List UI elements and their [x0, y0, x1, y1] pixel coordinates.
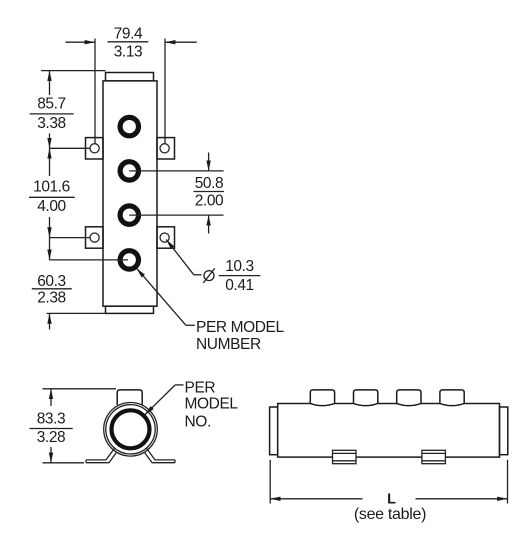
end view bracket feet [86, 448, 175, 463]
svg-text:3.38: 3.38 [37, 115, 66, 132]
svg-text:NUMBER: NUMBER [196, 336, 261, 353]
svg-text:0.41: 0.41 [225, 277, 254, 294]
end view body second circle [106, 405, 155, 454]
front view body [103, 81, 157, 306]
mounting tab upper-left [86, 138, 104, 159]
port P2 [120, 162, 138, 180]
mounting hole lower-left [90, 233, 99, 242]
svg-text:10.3: 10.3 [225, 258, 254, 275]
leader PER MODEL NUMBER [137, 268, 285, 353]
svg-text:4.00: 4.00 [37, 198, 66, 215]
front view bottom boss [106, 306, 154, 313]
svg-text:3.28: 3.28 [37, 429, 66, 446]
dimension L (see table) [270, 460, 507, 523]
dimension 83.3/3.28 [30, 389, 117, 463]
svg-text:50.8: 50.8 [195, 175, 224, 192]
svg-text:L: L [387, 492, 396, 508]
mounting tab lower-right [157, 227, 175, 248]
mounting hole lower-right [160, 233, 169, 242]
side view port S2 [354, 390, 378, 406]
front view top boss [106, 73, 154, 81]
side view port S1 [310, 390, 334, 406]
svg-text:3.13: 3.13 [114, 44, 143, 61]
end view port stub [117, 390, 142, 405]
side view left cap [270, 407, 278, 455]
mounting hole upper-right [160, 144, 169, 153]
end view body outer circle [104, 403, 158, 457]
leader PER MODEL NO. [145, 380, 239, 431]
svg-text:2.00: 2.00 [195, 192, 224, 209]
port P4 [120, 251, 138, 269]
svg-text:MODEL: MODEL [185, 396, 239, 413]
mounting tab upper-right [157, 138, 175, 159]
mounting tab lower-left [86, 227, 104, 248]
svg-text:101.6: 101.6 [33, 179, 70, 196]
side view right cap [500, 407, 508, 455]
svg-text:83.3: 83.3 [37, 410, 66, 427]
dimension 50.8/2.00 [129, 153, 224, 234]
side view mounting tab T1 [333, 450, 357, 463]
port P3 [120, 206, 138, 224]
side view port S4 [440, 390, 464, 406]
svg-text:60.3: 60.3 [37, 273, 66, 290]
mounting hole upper-left [90, 144, 99, 153]
dimension 101.6/4.00 [29, 148, 90, 237]
dimension 85.7/3.38 [30, 71, 106, 149]
svg-text:79.4: 79.4 [114, 26, 143, 43]
side view port S3 [397, 390, 421, 406]
svg-text:NO.: NO. [185, 413, 211, 430]
svg-text:2.38: 2.38 [37, 290, 66, 307]
dimension 60.3/2.38 [32, 238, 128, 330]
svg-text:85.7: 85.7 [37, 95, 66, 112]
side view body [278, 404, 500, 458]
svg-text:PER: PER [185, 380, 216, 397]
svg-text:(see table): (see table) [354, 506, 426, 523]
end view bore thick ring [112, 410, 150, 448]
hole diameter callout 10.3/0.41 [166, 240, 260, 295]
dimension 79.4/3.13 [66, 26, 197, 144]
port P1 [120, 117, 138, 135]
side view mounting tab T2 [422, 450, 446, 463]
svg-text:PER MODEL: PER MODEL [196, 319, 284, 336]
